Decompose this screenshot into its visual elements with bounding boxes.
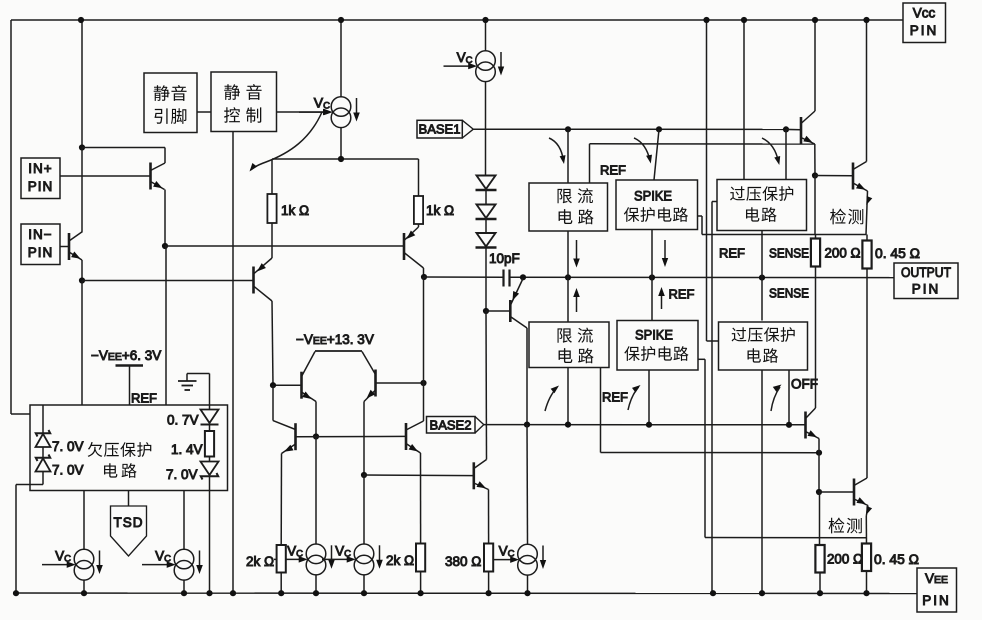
wire: main output node wire bbox=[424, 276, 503, 278]
svg-text:OFF: OFF bbox=[791, 377, 818, 392]
svg-text:BASE1: BASE1 bbox=[419, 122, 461, 137]
Q13 bar bbox=[294, 423, 297, 450]
block: undervoltage protection 欠压保护电路 bbox=[30, 405, 228, 491]
svg-text:SPIKE: SPIKE bbox=[634, 188, 672, 204]
svg-text:VC: VC bbox=[55, 549, 71, 565]
IN+ PIN terminal bbox=[21, 158, 60, 199]
svg-text:REF: REF bbox=[131, 391, 157, 406]
svg-text:VC: VC bbox=[457, 50, 473, 66]
transistor Q12 (detection bottom) bbox=[819, 491, 854, 493]
junction dots bottom rail bbox=[13, 590, 19, 596]
transistor Q2 (IN- follower) bbox=[81, 148, 83, 232]
block: mute control 静音控制 bbox=[211, 72, 277, 132]
wire: BASE1 bus bbox=[473, 128, 800, 130]
svg-text:TSD: TSD bbox=[114, 515, 144, 530]
svg-text:PIN: PIN bbox=[910, 23, 939, 38]
zener Z1 7.0V bbox=[42, 405, 44, 433]
svg-text:IN+: IN+ bbox=[28, 161, 52, 176]
wire: Vcc top rail bbox=[11, 19, 903, 21]
transistor Q10 (detection top) bbox=[866, 20, 868, 162]
Q5 bar bbox=[509, 300, 512, 322]
svg-text:1k Ω: 1k Ω bbox=[426, 203, 454, 218]
Q6 bar bbox=[300, 372, 303, 399]
curved arrow from SPIKE (lower) bbox=[628, 387, 639, 410]
svg-text:0. 7V: 0. 7V bbox=[167, 413, 199, 428]
wire: mute control to current source with Vc arrow bbox=[277, 111, 329, 113]
node: mirror emitter to lower base bus bbox=[313, 433, 319, 439]
svg-text:PIN: PIN bbox=[912, 282, 941, 297]
nets from diff pair down bbox=[423, 277, 425, 383]
svg-text:SENSE: SENSE bbox=[769, 246, 809, 261]
BASE1 label flag bbox=[417, 120, 462, 138]
node: Q1 emitter junction bbox=[162, 243, 168, 249]
node: mirror right emitter to 380 driver base bbox=[361, 472, 367, 478]
wire: SPIKE2 right edge step to lower detection line bbox=[698, 358, 705, 360]
wire: current limit (lower) to OFF emitter bbox=[600, 368, 602, 453]
transistor Q9 (output driver top) bbox=[814, 20, 816, 111]
resistor R10 380 bbox=[484, 544, 493, 572]
svg-text:1k Ω: 1k Ω bbox=[281, 203, 309, 218]
resistor R1 1k bbox=[271, 159, 273, 194]
svg-text:SENSE: SENSE bbox=[769, 286, 809, 301]
arrow below SPIKE (upper) bbox=[664, 240, 666, 264]
svg-text:REF: REF bbox=[600, 163, 626, 178]
arrow above current limit (lower) bbox=[576, 291, 578, 312]
wire: mute control drop to VEE rail bbox=[232, 132, 234, 594]
wire: 1k top bus bbox=[272, 158, 419, 160]
wire: net from Vcc rail to overvoltage block 2 (x=706.5) bbox=[706, 20, 708, 341]
svg-text:380 Ω: 380 Ω bbox=[445, 554, 481, 569]
current source I1 (mute) bbox=[340, 20, 342, 97]
svg-text:−VEE+6. 3V: −VEE+6. 3V bbox=[91, 348, 161, 363]
svg-text:VEE: VEE bbox=[925, 571, 948, 586]
Q12 bar bbox=[853, 479, 856, 506]
curved arrow into current limit (upper) bbox=[549, 138, 564, 161]
Q1 bar bbox=[149, 163, 152, 190]
wire: REF line from current-limit block to Q9 emitter bbox=[590, 143, 816, 145]
resistor R2 1k bbox=[418, 159, 420, 196]
curved arrow from mute control bbox=[251, 112, 323, 170]
svg-text:7. 0V: 7. 0V bbox=[52, 463, 84, 478]
svg-text:BASE2: BASE2 bbox=[430, 418, 472, 433]
diode D2 bbox=[477, 205, 496, 219]
svg-text:−VEE+13. 3V: −VEE+13. 3V bbox=[296, 332, 374, 347]
current source I7 bbox=[518, 544, 538, 564]
current source I3 bbox=[83, 491, 85, 550]
Q7 bar bbox=[374, 370, 377, 397]
wire: BASE2 bus bbox=[484, 424, 806, 426]
node: OFF emitter joins current-limit wire bbox=[816, 450, 822, 456]
curved arrow from current limit (lower) bbox=[545, 388, 557, 412]
TSD block bbox=[128, 491, 130, 507]
block: current limit 限流电路 (upper) bbox=[529, 183, 608, 231]
svg-text:1. 4V: 1. 4V bbox=[171, 442, 203, 457]
svg-text:0. 45 Ω: 0. 45 Ω bbox=[875, 246, 920, 261]
svg-text:VC: VC bbox=[499, 544, 515, 560]
zener Z2 7.0V bbox=[42, 447, 44, 458]
svg-text:0. 45 Ω: 0. 45 Ω bbox=[874, 552, 919, 567]
block: overvoltage protection 过压保护电路 (upper) bbox=[717, 180, 807, 231]
resistor R8 2k bbox=[277, 545, 286, 573]
svg-text:PIN: PIN bbox=[28, 179, 54, 194]
wire: Q2 emitter to Q3 base bbox=[82, 280, 254, 282]
svg-text:REF: REF bbox=[602, 390, 628, 405]
resistor R9 2k bbox=[416, 544, 425, 572]
arrow + REF above SPIKE (lower) bbox=[661, 290, 663, 309]
Q14 bar bbox=[405, 423, 408, 450]
svg-text:10pF: 10pF bbox=[489, 251, 520, 266]
svg-text:2k Ω: 2k Ω bbox=[386, 553, 414, 568]
svg-text:REF: REF bbox=[719, 246, 745, 261]
zener Z3 7.0V bbox=[209, 457, 211, 462]
svg-text:PIN: PIN bbox=[28, 245, 54, 260]
svg-text:7. 0V: 7. 0V bbox=[166, 467, 198, 482]
current source I4 bbox=[183, 491, 185, 550]
svg-text:OUTPUT: OUTPUT bbox=[901, 265, 951, 280]
resistor R7 1.4V bbox=[205, 431, 214, 457]
svg-text:IN−: IN− bbox=[28, 227, 52, 242]
capacitor C1 10pF bbox=[502, 270, 504, 287]
wire: left border bbox=[10, 20, 12, 414]
wire: Q5 collector / BASE2 node to source bbox=[526, 425, 529, 544]
block: current limit 限流电路 (lower) bbox=[529, 322, 609, 368]
Vcc PIN terminal bbox=[903, 3, 946, 43]
svg-text:Vcc: Vcc bbox=[913, 6, 936, 21]
Q2 bar bbox=[68, 233, 71, 260]
junction dots top rail bbox=[78, 17, 84, 23]
wire: VEE bottom rail bbox=[13, 592, 917, 595]
block: SPIKE protection (lower) bbox=[617, 321, 698, 371]
resistor R4 0.45ohm bbox=[866, 235, 868, 241]
current source I5 bbox=[306, 544, 326, 564]
svg-text:200 Ω: 200 Ω bbox=[827, 552, 863, 567]
Q8 bar bbox=[472, 462, 475, 489]
block: SPIKE protection SPIKE保护电路 (upper) bbox=[616, 180, 698, 230]
IN- PIN terminal bbox=[21, 224, 60, 265]
ground symbol bbox=[186, 374, 188, 381]
block: overvoltage protection (lower) bbox=[719, 322, 808, 370]
wire: collector bus from top rail x=82 bbox=[81, 20, 83, 148]
Q4 bar bbox=[403, 233, 406, 260]
curved arrow into overvoltage (upper) bbox=[762, 138, 779, 162]
detection box (upper) 检测 bbox=[814, 176, 816, 235]
svg-text:200 Ω: 200 Ω bbox=[825, 246, 861, 261]
arrow below current limit (upper) bbox=[576, 240, 578, 264]
svg-text:PIN: PIN bbox=[922, 593, 951, 608]
block: mute pin 静音引脚 bbox=[144, 73, 197, 133]
svg-text:VC: VC bbox=[155, 549, 171, 565]
resistor R3 200ohm bbox=[815, 235, 817, 239]
detection box (lower) 检测 bbox=[819, 492, 821, 545]
diode D3 bbox=[477, 233, 496, 247]
svg-text:VC: VC bbox=[287, 543, 303, 559]
svg-text:VC: VC bbox=[314, 95, 330, 112]
node: D3 to Q5 base bbox=[483, 308, 489, 314]
wire: SPIKE1 right edge step to REF/detection line bbox=[698, 215, 703, 217]
current source I6 bbox=[354, 544, 374, 564]
svg-text:VC: VC bbox=[335, 543, 351, 559]
svg-text:REF: REF bbox=[669, 287, 695, 302]
resistor R5 200ohm (lower) bbox=[815, 545, 824, 573]
resistor R6 0.45ohm (lower) bbox=[862, 544, 871, 572]
VEE PIN terminal bbox=[917, 568, 957, 612]
diode D1 bbox=[477, 176, 496, 190]
Q10 bar bbox=[852, 163, 855, 190]
Q11 bar bbox=[804, 412, 807, 439]
curved arrow into SPIKE (upper) bbox=[634, 138, 650, 161]
OUTPUT PIN terminal bbox=[894, 263, 958, 299]
Q9 bar bbox=[800, 117, 803, 144]
curved arrow from overvoltage (lower) bbox=[771, 387, 780, 411]
svg-text:2k Ω: 2k Ω bbox=[246, 554, 274, 569]
current source I2 (bias for BASE1 diode chain) bbox=[485, 20, 487, 51]
Q3 bar bbox=[252, 267, 255, 294]
svg-text:SPIKE: SPIKE bbox=[635, 327, 673, 343]
wire: net overvoltage box1 to VEE rail (x=712) bbox=[711, 202, 713, 594]
BASE2 label flag bbox=[427, 417, 476, 434]
svg-text:7. 0V: 7. 0V bbox=[52, 439, 84, 454]
wire: between mute boxes bbox=[197, 111, 211, 113]
